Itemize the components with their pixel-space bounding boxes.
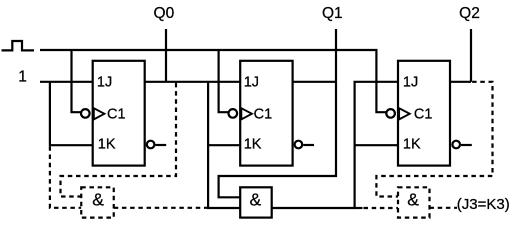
- svg-text:1K: 1K: [98, 137, 116, 153]
- svg-text:(J3=K3): (J3=K3): [457, 196, 510, 213]
- svg-text:&: &: [407, 190, 419, 210]
- svg-text:1J: 1J: [403, 75, 418, 91]
- svg-text:1J: 1J: [244, 75, 259, 91]
- svg-text:Q2: Q2: [459, 5, 480, 22]
- svg-text:1K: 1K: [403, 137, 421, 153]
- svg-text:&: &: [92, 190, 104, 210]
- svg-text:C1: C1: [254, 106, 273, 122]
- svg-text:1: 1: [18, 68, 27, 85]
- svg-text:Q0: Q0: [154, 5, 175, 22]
- svg-text:1J: 1J: [97, 75, 112, 91]
- svg-text:Q1: Q1: [322, 5, 343, 22]
- svg-text:1K: 1K: [244, 137, 262, 153]
- svg-text:C1: C1: [414, 106, 433, 122]
- svg-text:&: &: [250, 190, 262, 210]
- svg-text:C1: C1: [107, 106, 126, 122]
